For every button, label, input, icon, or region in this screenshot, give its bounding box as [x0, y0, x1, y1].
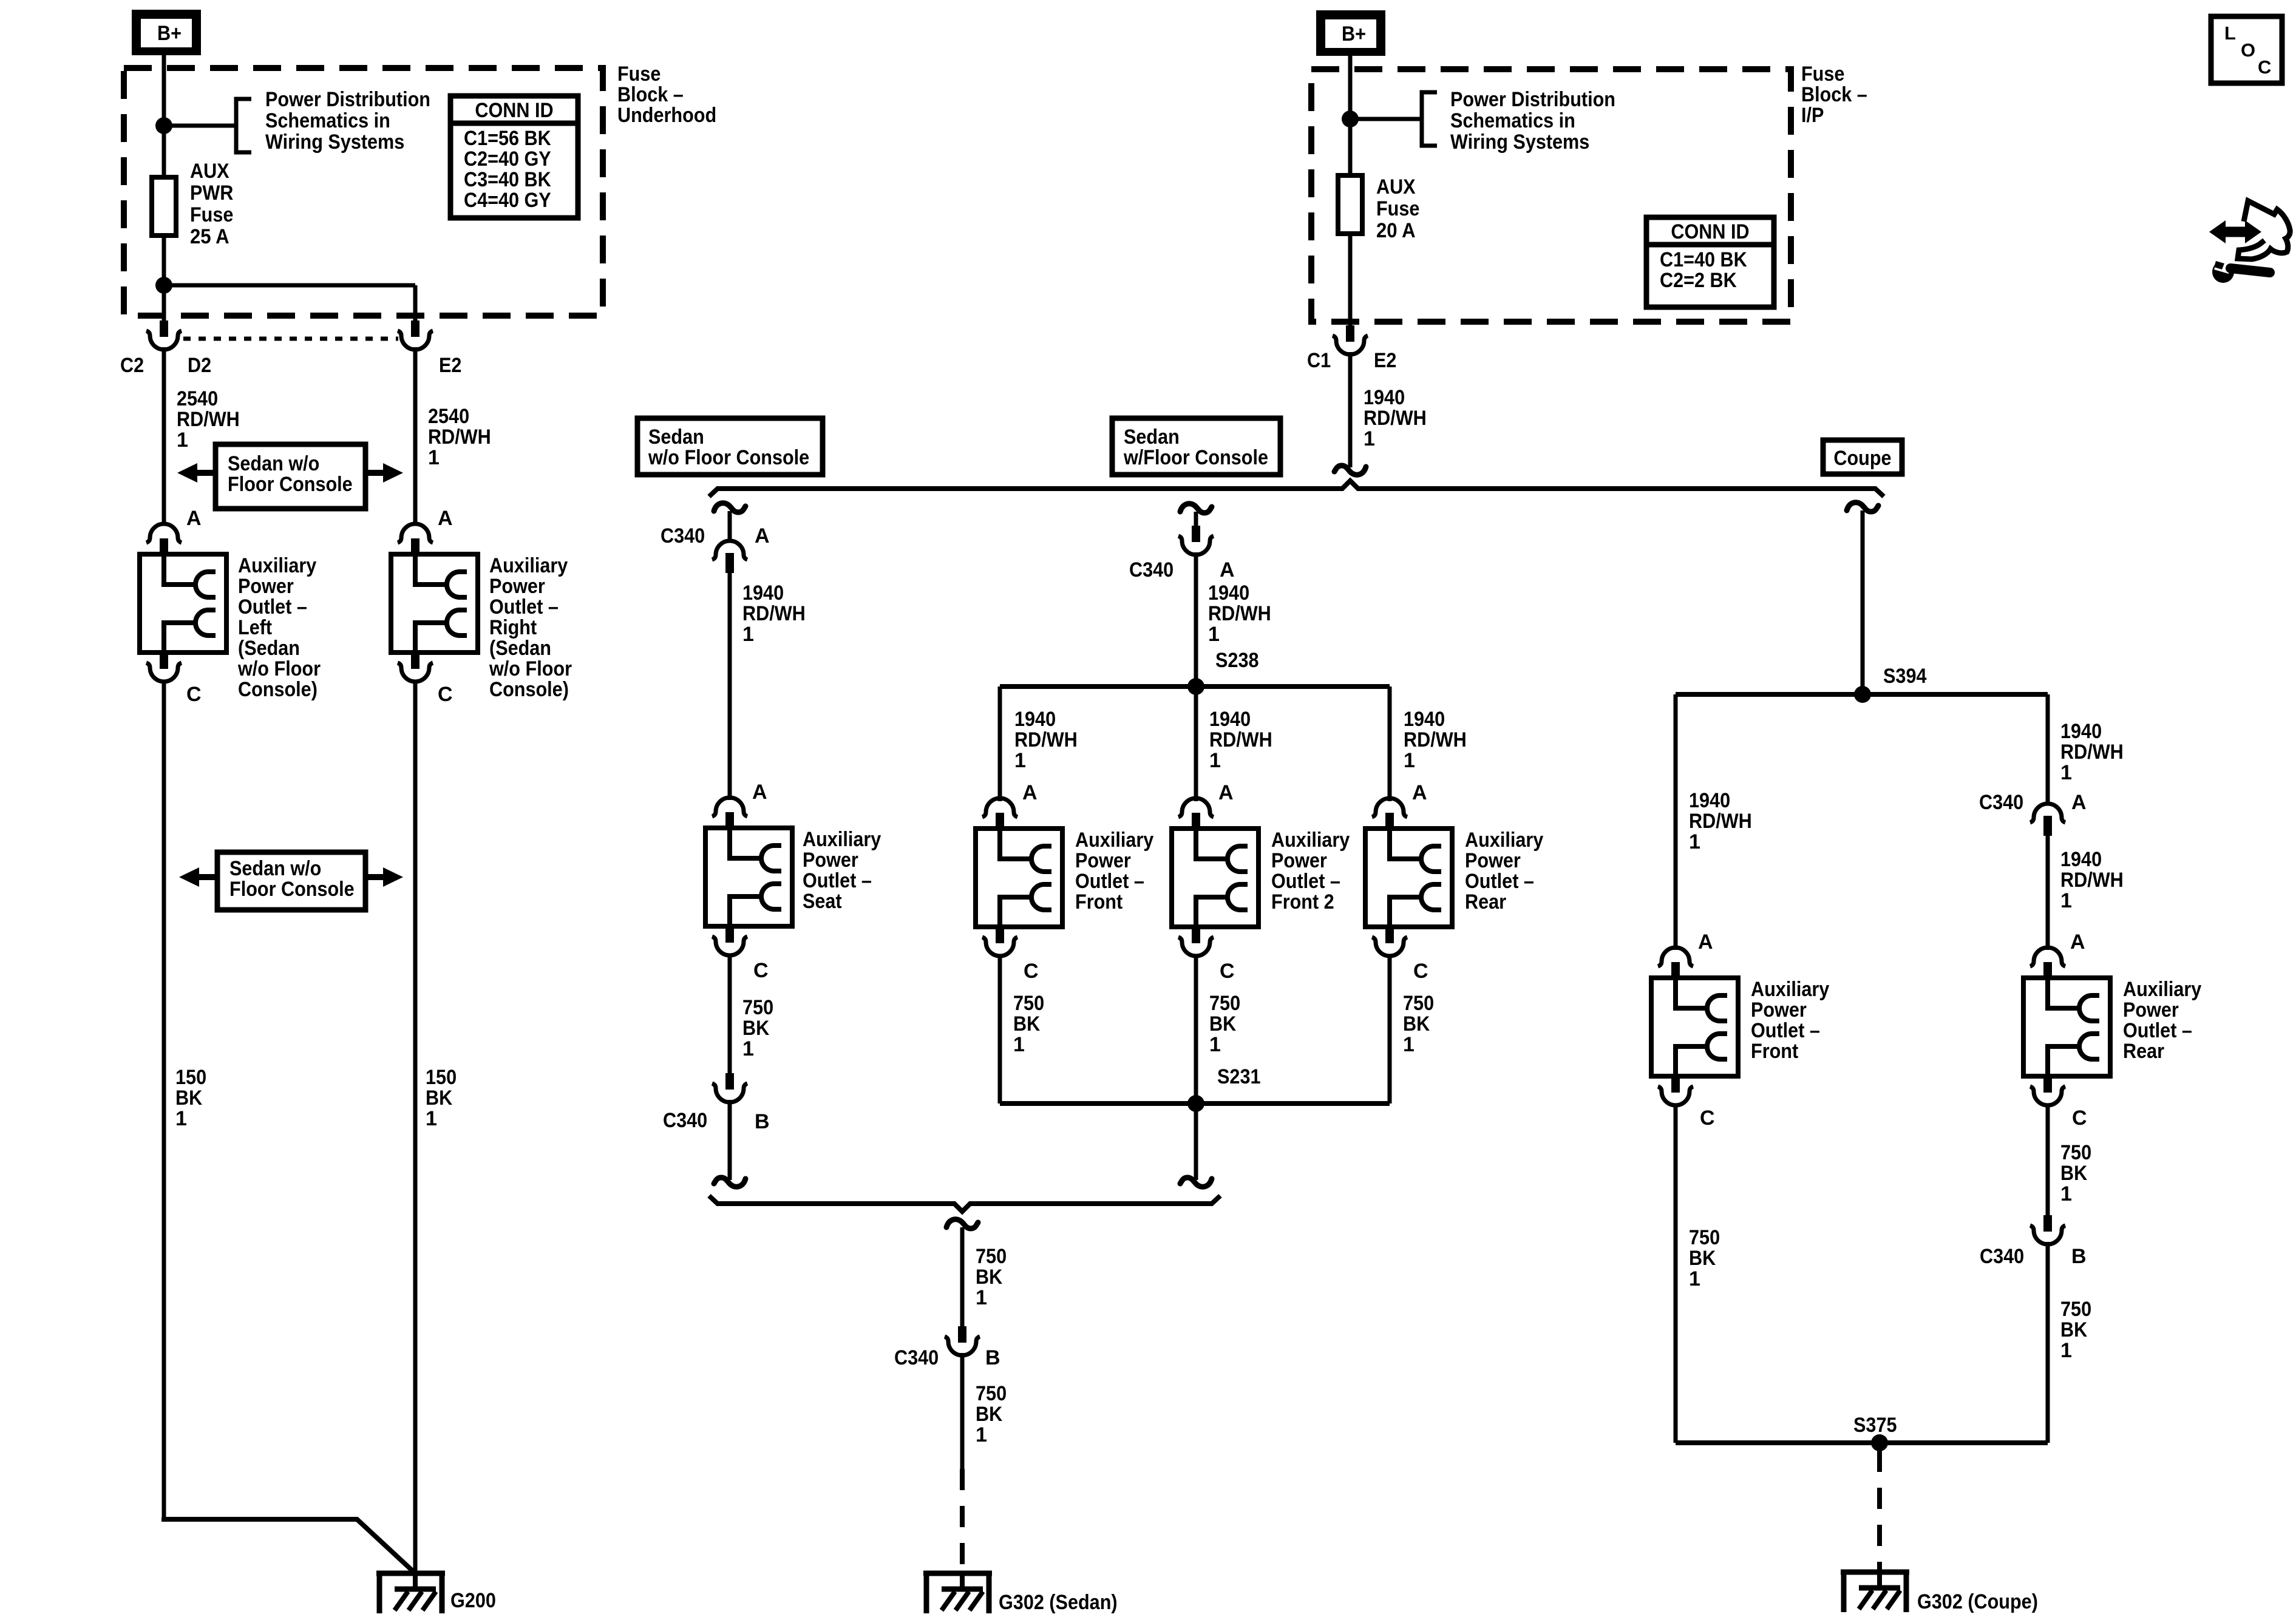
svg-text:Outlet –: Outlet –	[238, 595, 307, 619]
svg-text:BK: BK	[1209, 1012, 1237, 1036]
dashed wire to G302 sedan	[960, 1469, 965, 1573]
node junction to power distribution note (middle)	[1342, 110, 1359, 127]
svg-text:Power: Power	[1465, 849, 1521, 872]
svg-text:Auxiliary: Auxiliary	[1751, 978, 1829, 1001]
svg-text:C: C	[2258, 56, 2271, 78]
wire D2 to outlet left	[162, 347, 166, 526]
svg-text:w/o Floor: w/o Floor	[489, 657, 572, 680]
svg-text:1940: 1940	[1689, 789, 1730, 812]
svg-text:C2=2 BK: C2=2 BK	[1660, 269, 1737, 292]
svg-text:A: A	[752, 781, 767, 804]
svg-text:CONN ID: CONN ID	[475, 99, 553, 122]
svg-text:B: B	[755, 1110, 770, 1133]
svg-text:w/o Floor Console: w/o Floor Console	[648, 446, 809, 469]
svg-text:RD/WH: RD/WH	[177, 408, 240, 431]
svg-text:RD/WH: RD/WH	[742, 602, 806, 625]
svg-text:C: C	[2072, 1107, 2087, 1130]
svg-text:C1=56 BK: C1=56 BK	[464, 127, 551, 150]
connector C340 pin B (coupe)	[2043, 1215, 2052, 1232]
svg-text:1940: 1940	[1209, 708, 1251, 731]
schematic navigation icon (double arrow)	[2220, 227, 2251, 237]
wire S238 to outlet rear	[1388, 686, 1392, 801]
branch squiggle (seat)	[714, 503, 746, 512]
fuse block underhood dashed box	[124, 68, 603, 316]
svg-text:E2: E2	[1374, 349, 1396, 372]
wire S238 to outlet front 2	[1194, 686, 1198, 801]
svg-text:1: 1	[1689, 830, 1700, 853]
svg-text:Outlet –: Outlet –	[1271, 870, 1340, 893]
svg-text:750: 750	[742, 996, 773, 1019]
CONN ID table (underhood)	[450, 96, 578, 218]
splice S231	[1187, 1095, 1204, 1112]
wire C340 A to coupe rear outlet	[2046, 834, 2050, 950]
svg-text:1: 1	[1364, 427, 1375, 450]
wire brace to C340 A (seat)	[728, 511, 732, 542]
svg-text:Console): Console)	[489, 678, 569, 701]
svg-text:1: 1	[2060, 889, 2072, 912]
LOC reference box	[2211, 16, 2282, 83]
svg-text:25 A: 25 A	[190, 225, 229, 248]
svg-text:Wiring Systems: Wiring Systems	[265, 131, 404, 154]
svg-text:1940: 1940	[2060, 848, 2102, 871]
svg-text:C340: C340	[1980, 1245, 2024, 1268]
wire S231 to gather brace	[1194, 1103, 1198, 1180]
svg-text:I/P: I/P	[1801, 104, 1824, 127]
feed wire end squiggle	[1334, 466, 1366, 475]
connector pin C coupe front outlet	[1671, 1076, 1680, 1093]
wire outlet rear to S231	[1388, 955, 1392, 1103]
connector pin C outlet seat	[725, 926, 734, 943]
svg-text:C340: C340	[663, 1109, 707, 1132]
svg-text:C: C	[438, 683, 453, 706]
connector pin A outlet right	[398, 524, 433, 543]
fuse block IP dashed box	[1311, 69, 1791, 322]
svg-text:750: 750	[2060, 1141, 2091, 1164]
wire elbow into G200	[164, 1517, 415, 1573]
svg-text:Seat: Seat	[803, 890, 842, 913]
dashed wire to G302 coupe	[1877, 1451, 1882, 1572]
wire outlet front to S231	[998, 955, 1002, 1103]
svg-text:BK: BK	[2060, 1318, 2088, 1341]
connector C340 pin A (coupe)	[2030, 804, 2065, 822]
svg-text:A: A	[1022, 781, 1038, 804]
svg-text:1940: 1940	[742, 581, 784, 605]
svg-text:BK: BK	[426, 1086, 453, 1110]
svg-text:S375: S375	[1853, 1414, 1897, 1437]
svg-text:Schematics in: Schematics in	[265, 109, 390, 132]
ground G200	[376, 1571, 445, 1576]
S394 distribution line	[1676, 692, 2048, 697]
wire C340 B to S375	[2046, 1242, 2050, 1443]
wire S394 to coupe C340 A	[2046, 694, 2050, 805]
branch squiggle (coupe)	[1847, 503, 1878, 512]
wire C340 B to dashed section	[960, 1353, 965, 1469]
svg-text:RD/WH: RD/WH	[1209, 728, 1272, 751]
svg-text:150: 150	[175, 1066, 206, 1089]
svg-text:BK: BK	[1403, 1012, 1430, 1036]
svg-text:1: 1	[1013, 1033, 1025, 1056]
fuse AUX 20A	[1338, 175, 1362, 234]
svg-text:1: 1	[428, 446, 440, 469]
svg-text:Sedan: Sedan	[648, 425, 704, 449]
svg-text:Power: Power	[1751, 998, 1807, 1022]
svg-text:C340: C340	[661, 524, 705, 547]
note bracket (middle)	[1422, 92, 1437, 146]
svg-text:750: 750	[1689, 1226, 1720, 1249]
wire coupe front outlet to S375	[1674, 1104, 1678, 1443]
svg-text:Auxiliary: Auxiliary	[238, 554, 316, 577]
svg-text:Power Distribution: Power Distribution	[265, 88, 430, 111]
auxiliary power outlet front 2	[1172, 829, 1258, 927]
splice S394	[1854, 686, 1871, 703]
option box Sedan w/o Floor Console (top)	[216, 444, 365, 509]
svg-text:Floor Console: Floor Console	[228, 473, 353, 496]
svg-text:2540: 2540	[177, 387, 218, 410]
svg-text:C: C	[753, 959, 769, 982]
option box Sedan w/o Floor Console (branch)	[637, 418, 823, 475]
connector C2 pin E2	[411, 320, 419, 337]
svg-text:Power: Power	[1075, 849, 1131, 872]
connector pin A outlet rear	[1372, 798, 1407, 817]
auxiliary power outlet coupe front	[1651, 978, 1738, 1076]
connector pin A coupe rear outlet	[2030, 947, 2065, 966]
svg-text:C1: C1	[1307, 349, 1331, 372]
svg-text:RD/WH: RD/WH	[1208, 602, 1271, 625]
svg-text:750: 750	[1013, 992, 1044, 1015]
wire to note bracket (left)	[164, 124, 236, 128]
svg-text:AUX: AUX	[190, 160, 229, 183]
svg-text:A: A	[1412, 781, 1427, 804]
S238 distribution line	[1000, 684, 1390, 689]
wire outlet left C to ground run	[162, 680, 166, 1519]
svg-text:Auxiliary: Auxiliary	[1075, 829, 1153, 852]
svg-text:C: C	[1024, 960, 1039, 983]
wire fuse to C2 connector	[162, 236, 166, 322]
svg-text:1: 1	[742, 1037, 754, 1060]
svg-text:BK: BK	[175, 1086, 203, 1110]
gather brace (bottom)	[709, 1196, 1220, 1212]
connector pin A outlet front 2	[1178, 798, 1214, 817]
svg-text:20 A: 20 A	[1376, 219, 1416, 242]
connector pin C outlet left	[160, 653, 168, 669]
wire S238 to outlet front	[998, 686, 1002, 801]
svg-text:E2: E2	[439, 354, 461, 377]
svg-text:C2: C2	[120, 354, 144, 377]
svg-text:Auxiliary: Auxiliary	[2123, 978, 2201, 1001]
svg-text:Block –: Block –	[1801, 83, 1867, 106]
svg-text:BK: BK	[976, 1403, 1003, 1426]
distribution brace (top)	[709, 481, 1884, 497]
svg-text:Outlet –: Outlet –	[1751, 1019, 1820, 1042]
svg-text:C: C	[1413, 960, 1428, 983]
svg-text:Auxiliary: Auxiliary	[489, 554, 568, 577]
svg-text:1: 1	[1404, 749, 1415, 772]
splice S238	[1187, 678, 1204, 695]
svg-text:1: 1	[175, 1107, 187, 1130]
svg-text:1: 1	[1403, 1033, 1415, 1056]
svg-text:Power: Power	[489, 575, 545, 598]
svg-text:1: 1	[976, 1286, 987, 1309]
svg-text:150: 150	[426, 1066, 457, 1089]
svg-text:Coupe: Coupe	[1833, 447, 1891, 470]
wire outlet right C to ground	[413, 680, 418, 1573]
svg-text:1: 1	[742, 623, 754, 646]
svg-text:Rear: Rear	[1465, 890, 1506, 914]
wire C340 B to gather brace	[728, 1100, 732, 1180]
connector pin A outlet front	[982, 798, 1017, 817]
connector pin C outlet front	[996, 927, 1004, 943]
svg-text:750: 750	[1209, 992, 1240, 1015]
svg-text:RD/WH: RD/WH	[1689, 810, 1752, 833]
svg-text:Underhood: Underhood	[617, 104, 716, 127]
svg-text:AUX: AUX	[1376, 175, 1416, 198]
auxiliary power outlet coupe rear	[2023, 978, 2110, 1076]
svg-text:BK: BK	[976, 1266, 1003, 1289]
connector C340 pin A (seat)	[712, 541, 747, 560]
auxiliary power outlet seat	[705, 828, 792, 926]
connector pin C outlet rear	[1385, 927, 1394, 943]
svg-text:Power: Power	[238, 575, 294, 598]
svg-text:C: C	[1700, 1107, 1715, 1130]
svg-text:750: 750	[976, 1382, 1007, 1405]
svg-text:C3=40 BK: C3=40 BK	[464, 168, 551, 191]
svg-text:w/Floor Console: w/Floor Console	[1123, 446, 1268, 469]
wire end squiggle (seat)	[714, 1178, 746, 1187]
svg-text:B: B	[985, 1346, 1000, 1369]
svg-text:PWR: PWR	[190, 181, 233, 205]
wire brace to C340 A (floor console)	[1194, 512, 1198, 527]
node junction to power distribution note (left)	[155, 117, 172, 134]
wire B+ to fuse (left)	[162, 55, 166, 177]
svg-text:1: 1	[2060, 761, 2072, 784]
svg-text:CONN ID: CONN ID	[1671, 220, 1749, 243]
svg-text:C: C	[186, 683, 202, 706]
connector C340 pin A (floor console)	[1192, 526, 1200, 542]
connector pin A outlet seat	[712, 798, 747, 816]
svg-text:2540: 2540	[428, 405, 469, 428]
connector pin C outlet front 2	[1192, 927, 1200, 943]
svg-text:C: C	[1220, 960, 1235, 983]
svg-text:Power: Power	[1271, 849, 1327, 872]
svg-text:1: 1	[2060, 1182, 2072, 1205]
svg-text:1940: 1940	[1404, 708, 1445, 731]
svg-text:RD/WH: RD/WH	[2060, 741, 2124, 764]
svg-text:BK: BK	[2060, 1162, 2088, 1185]
wire coupe rear outlet to C340 B	[2046, 1104, 2050, 1216]
S231 collector line	[1000, 1101, 1390, 1106]
svg-text:B+: B+	[157, 22, 182, 45]
svg-text:C340: C340	[1129, 558, 1173, 581]
svg-text:Rear: Rear	[2123, 1040, 2164, 1063]
wire C340 A to outlet seat	[728, 571, 732, 800]
svg-text:Sedan w/o: Sedan w/o	[228, 452, 319, 475]
svg-text:1: 1	[1014, 749, 1026, 772]
svg-text:BK: BK	[742, 1017, 770, 1040]
connector pin A coupe front outlet	[1658, 947, 1693, 966]
svg-text:C4=40 GY: C4=40 GY	[464, 189, 551, 212]
svg-text:RD/WH: RD/WH	[1404, 728, 1467, 751]
svg-text:C1=40 BK: C1=40 BK	[1660, 248, 1747, 271]
svg-text:C340: C340	[1979, 791, 2023, 814]
ground G302 sedan	[923, 1571, 992, 1576]
auxiliary power outlet right	[391, 554, 478, 653]
ground G302 coupe	[1841, 1570, 1909, 1575]
connector pin C coupe rear outlet	[2043, 1076, 2052, 1093]
connector C1 pin E2	[1346, 325, 1354, 342]
svg-text:A: A	[186, 507, 202, 530]
svg-text:A: A	[755, 524, 770, 547]
svg-text:1: 1	[1208, 623, 1220, 646]
svg-text:1940: 1940	[1208, 581, 1249, 605]
svg-text:Outlet –: Outlet –	[803, 869, 872, 892]
svg-text:1940: 1940	[2060, 720, 2102, 743]
wire end squiggle (S231 drop)	[1180, 1178, 1212, 1187]
option box Sedan w/Floor Console (branch)	[1112, 418, 1280, 475]
svg-text:1940: 1940	[1364, 386, 1405, 409]
auxiliary power outlet rear	[1365, 829, 1452, 927]
svg-text:A: A	[438, 507, 453, 530]
wire fuse to C1 connector	[1348, 234, 1353, 327]
svg-text:(Sedan: (Sedan	[238, 637, 300, 660]
svg-text:RD/WH: RD/WH	[1364, 407, 1427, 430]
svg-text:1: 1	[177, 429, 188, 452]
connector pin C outlet right	[411, 653, 419, 669]
svg-text:BK: BK	[1689, 1247, 1716, 1270]
schematic navigation icon (wrench)	[2212, 261, 2234, 283]
dotted connector tie line C2	[183, 337, 398, 341]
svg-text:BK: BK	[1013, 1012, 1041, 1036]
svg-text:Fuse: Fuse	[1376, 197, 1419, 220]
svg-text:Outlet –: Outlet –	[2123, 1019, 2192, 1042]
fuse AUX PWR 25A	[152, 177, 176, 236]
B+ battery feed symbol (middle)	[1316, 10, 1385, 56]
svg-text:Power: Power	[2123, 998, 2179, 1022]
svg-text:A: A	[2070, 931, 2085, 954]
wire S394 to coupe front outlet	[1674, 694, 1678, 950]
option box Coupe (branch)	[1823, 440, 1902, 474]
svg-text:1940: 1940	[1014, 708, 1056, 731]
svg-text:1: 1	[1209, 1033, 1221, 1056]
connector pin A outlet left	[146, 524, 182, 543]
schematic navigation icon (outline arrow)	[2238, 201, 2290, 259]
svg-text:1: 1	[1689, 1267, 1700, 1290]
svg-text:(Sedan: (Sedan	[489, 637, 551, 660]
wire to note bracket (middle)	[1350, 117, 1422, 121]
svg-text:O: O	[2241, 39, 2255, 61]
auxiliary power outlet left	[140, 554, 226, 653]
svg-text:D2: D2	[188, 354, 211, 377]
splice S375	[1871, 1434, 1888, 1451]
svg-text:A: A	[1220, 558, 1235, 581]
connector C340 pin B (sedan ground run)	[958, 1326, 966, 1343]
svg-text:750: 750	[2060, 1298, 2091, 1321]
svg-text:B: B	[2071, 1245, 2087, 1268]
wire outlet front 2 to S231	[1194, 955, 1198, 1103]
svg-text:Floor Console: Floor Console	[229, 878, 355, 901]
svg-text:S394: S394	[1883, 665, 1927, 688]
svg-text:G302 (Sedan): G302 (Sedan)	[999, 1591, 1118, 1614]
wire E2 to outlet right	[413, 347, 418, 526]
svg-text:G302 (Coupe): G302 (Coupe)	[1917, 1590, 2038, 1613]
option box Sedan w/o Floor Console (lower)	[217, 852, 365, 910]
svg-text:S231: S231	[1217, 1065, 1261, 1088]
svg-text:Sedan: Sedan	[1124, 425, 1180, 449]
svg-text:Front: Front	[1075, 890, 1123, 914]
svg-text:Auxiliary: Auxiliary	[803, 828, 881, 851]
svg-text:B+: B+	[1342, 22, 1366, 46]
svg-text:Fuse: Fuse	[1801, 63, 1844, 86]
wire outlet seat to C340 B	[728, 954, 732, 1074]
svg-text:RD/WH: RD/WH	[428, 425, 491, 449]
note bracket (left)	[236, 99, 251, 152]
wire B+ to fuse (middle)	[1348, 56, 1353, 175]
svg-text:1: 1	[1209, 749, 1221, 772]
node junction to E2 branch	[155, 277, 172, 294]
svg-text:Right: Right	[489, 616, 537, 639]
wire C1 to brace	[1348, 352, 1353, 467]
svg-text:w/o Floor: w/o Floor	[237, 657, 321, 680]
output squiggle (gather)	[946, 1219, 978, 1229]
svg-text:Auxiliary: Auxiliary	[1465, 829, 1543, 852]
svg-text:Power Distribution: Power Distribution	[1450, 88, 1615, 111]
branch squiggle (floor console)	[1180, 504, 1212, 513]
svg-text:A: A	[1698, 931, 1713, 954]
S375 collector line	[1676, 1440, 2048, 1445]
connector C2 pin D2	[160, 320, 168, 337]
svg-text:Front 2: Front 2	[1271, 890, 1334, 914]
svg-text:RD/WH: RD/WH	[2060, 869, 2124, 892]
svg-text:C2=40 GY: C2=40 GY	[464, 147, 551, 171]
wire junction to E2 drop	[164, 283, 415, 288]
svg-text:Console): Console)	[238, 678, 318, 701]
wire C340 A to S238	[1194, 552, 1198, 686]
svg-text:RD/WH: RD/WH	[1014, 728, 1078, 751]
svg-text:S238: S238	[1215, 649, 1259, 672]
svg-text:Left: Left	[238, 616, 272, 639]
svg-text:Front: Front	[1751, 1040, 1798, 1063]
wire gather to C340 B (sedan ground run)	[960, 1227, 965, 1327]
svg-text:Sedan w/o: Sedan w/o	[229, 857, 321, 880]
svg-text:Block –: Block –	[617, 83, 684, 106]
connector C340 pin B (seat)	[725, 1073, 734, 1090]
svg-text:A: A	[1218, 781, 1234, 804]
svg-text:Fuse: Fuse	[190, 203, 233, 226]
svg-text:Auxiliary: Auxiliary	[1271, 829, 1350, 852]
svg-text:Fuse: Fuse	[617, 63, 661, 86]
svg-text:Power: Power	[803, 849, 858, 872]
svg-text:750: 750	[976, 1245, 1007, 1268]
svg-text:Outlet –: Outlet –	[1075, 870, 1144, 893]
auxiliary power outlet front	[976, 829, 1062, 927]
svg-text:Schematics in: Schematics in	[1450, 109, 1575, 132]
svg-text:Wiring Systems: Wiring Systems	[1450, 131, 1589, 154]
svg-text:1: 1	[2060, 1339, 2072, 1362]
svg-text:Outlet –: Outlet –	[1465, 870, 1534, 893]
wire brace to S394	[1861, 510, 1865, 694]
svg-text:1: 1	[426, 1107, 437, 1130]
svg-text:1: 1	[976, 1423, 987, 1446]
svg-text:Outlet –: Outlet –	[489, 595, 559, 619]
svg-text:G200: G200	[450, 1589, 496, 1612]
svg-text:A: A	[2071, 791, 2087, 814]
svg-text:750: 750	[1403, 992, 1434, 1015]
B+ battery feed symbol (left)	[132, 10, 201, 55]
svg-text:L: L	[2224, 22, 2236, 44]
CONN ID table (IP)	[1646, 217, 1774, 307]
svg-text:C340: C340	[894, 1346, 939, 1369]
